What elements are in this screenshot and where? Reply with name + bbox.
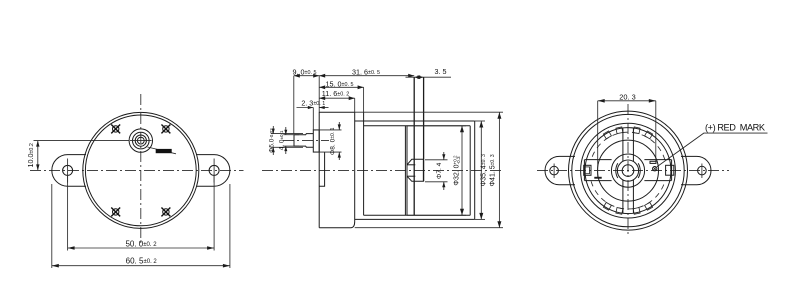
rear right ear tab (681, 156, 711, 184)
side housing top edge (319, 111, 355, 113)
front body outer circle (83, 112, 199, 228)
side can outer top (355, 120, 475, 122)
svg-text:(+) RED MARK: (+) RED MARK (705, 123, 766, 133)
rear right ear hole centerline (701, 164, 703, 179)
dim dia5.0 line (272, 126, 274, 134)
side can inner top (364, 125, 471, 127)
side can outer right edge (474, 121, 476, 219)
rear plate inner circle (572, 114, 684, 226)
dim dia7.4 extension lines (425, 159, 448, 161)
front screw top-left (111, 124, 120, 133)
front view horizontal centerline (30, 169, 244, 171)
front left ear hole (63, 165, 73, 175)
front screw top-right (161, 124, 170, 133)
rear red mark circle (653, 167, 657, 171)
front right ear hole (209, 165, 219, 175)
front screw bottom-left (111, 207, 120, 216)
dim dia32 line (461, 126, 463, 216)
dim 50.0 line (68, 247, 215, 249)
dim 60.5 extension lines (51, 184, 53, 268)
rear left ear hole (550, 166, 559, 175)
rear terminal flag (650, 161, 656, 163)
svg-text:Φ35. 4±0. 3: Φ35. 4±0. 3 (481, 154, 488, 186)
side stator divider (404, 126, 406, 216)
dim 9.0 line (294, 75, 319, 77)
svg-text:Φ32. 0+0.2-0.3: Φ32. 0+0.2-0.3 (452, 155, 461, 186)
rear rotor circle (611, 154, 644, 187)
side bushing (313, 130, 319, 152)
dim dia8.0 text (329, 127, 336, 155)
dim 15.0 extension line (363, 87, 365, 112)
side terminal pin 1 (413, 77, 415, 215)
svg-text:Φ7. 4: Φ7. 4 (436, 162, 443, 179)
side housing bottom edge (319, 222, 355, 228)
front view vertical centerline (140, 94, 142, 244)
rear can circle (581, 123, 676, 218)
side can inner bottom (364, 214, 471, 216)
rear left terminal block (584, 165, 591, 175)
rear pole tabs (645, 131, 653, 139)
rear hub retainer arcs (616, 163, 618, 178)
dim 20.3 extension lines (597, 101, 599, 160)
dim dia32 extension lines (407, 125, 466, 127)
front shaft circle 2 (133, 132, 150, 149)
dim dia7.4 line (443, 152, 445, 160)
rear shaft hole circle (622, 165, 634, 177)
dim dia41.5 extension lines (355, 111, 503, 113)
dim 9.0 extension lines (293, 76, 295, 134)
rear cross vertical bar (622, 128, 624, 161)
front right mounting ear tab (196, 155, 230, 187)
side shaft flat section (294, 135, 306, 146)
front left mounting ear tab (52, 155, 86, 187)
svg-text:Φ41. 5±0. 3: Φ41. 5±0. 3 (490, 154, 497, 186)
dim 60.5 line (52, 265, 230, 267)
side terminal pin 2 (423, 77, 425, 181)
svg-text:3. 5: 3. 5 (435, 67, 447, 76)
side plate right edge (363, 112, 365, 215)
dim 10.0 line (37, 141, 39, 171)
side can outer bottom (355, 218, 475, 220)
side housing face line (318, 112, 320, 228)
rear left ear tab (545, 156, 575, 184)
dim 10.0 extension line (34, 140, 130, 142)
rear right ear hole (698, 166, 707, 175)
front shaft bushing circle (129, 129, 152, 152)
dim 3.5 line (406, 76, 452, 78)
dim dia5.0 extension lines (271, 133, 303, 135)
dim 4.0 extension lines (283, 134, 299, 136)
front shaft circle 4 (137, 137, 144, 144)
dim dia8.0 line (338, 122, 340, 130)
rear bobbin circle (598, 140, 659, 201)
side plate left edge (354, 112, 356, 221)
rear left polarity mark (597, 160, 599, 178)
dim 2.3 extension line (312, 108, 314, 130)
rear cross horizontal bar (585, 159, 612, 161)
side can inner right edge (469, 126, 471, 216)
rear left ear hole centerline (553, 164, 555, 179)
dim dia7.4 text (436, 162, 443, 179)
rear hub circle (617, 160, 638, 181)
front right ear hole centerline (213, 159, 215, 183)
dim dia35.4 line (480, 121, 482, 219)
dim 11.6 line (319, 97, 355, 99)
dim dia41.5 text (490, 154, 497, 186)
rear plate outer circle (569, 111, 688, 230)
dim 10.0 text (26, 143, 35, 167)
front left ear hole centerline (67, 159, 69, 183)
dim 31.6 line (319, 75, 414, 77)
dim 11.6 extension line (354, 98, 356, 112)
dim dia35.4 extension lines (475, 120, 485, 122)
dim 4.0 line (285, 127, 287, 135)
dim 4.0 text (278, 130, 285, 150)
dim dia32 text (452, 155, 461, 186)
dim dia41.5 line (498, 112, 500, 228)
front timing mark (black) (156, 149, 172, 153)
dim dia8.0 extension lines (313, 129, 341, 131)
front shaft circle 3 (135, 135, 146, 146)
dim dia5.0 text (268, 128, 275, 153)
rear right terminal block (666, 165, 674, 175)
rear vertical centerline (627, 104, 629, 237)
dim dia35.4 text (481, 154, 488, 186)
side locating tab below bushing (319, 152, 324, 186)
side shaft full section (306, 134, 313, 148)
front screw bottom-right (161, 207, 170, 216)
side shaft centerline (283, 139, 329, 141)
dim 15.0 line (319, 86, 363, 88)
red mark leader line (657, 133, 768, 167)
rear horizontal centerline (537, 170, 729, 172)
side rotor hub (407, 159, 423, 181)
svg-text:Φ8. 0±0. 1: Φ8. 0±0. 1 (329, 127, 336, 155)
front body inner rim circle (85, 115, 196, 226)
side body centerline (262, 169, 503, 171)
svg-text:20. 3: 20. 3 (619, 92, 635, 101)
side rotor hub face lines (407, 164, 415, 166)
dim 50.0 extension lines (67, 176, 69, 251)
rear inner circle (585, 128, 671, 214)
rear pole dashed ring (591, 132, 665, 160)
dim 2.3 line (297, 107, 314, 109)
front shaft flat leader line (148, 147, 177, 154)
dim 20.3 line (598, 100, 656, 102)
front shaft crosshair (130, 140, 152, 142)
